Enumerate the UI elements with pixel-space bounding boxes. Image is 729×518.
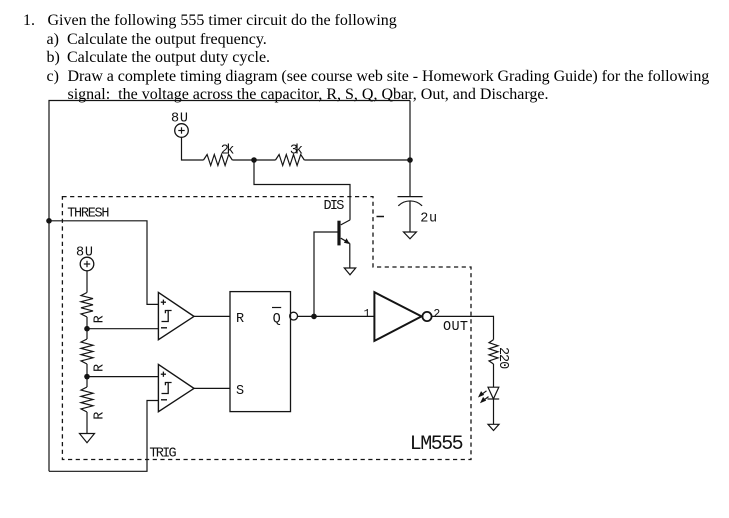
svg-text:Q: Q	[273, 312, 281, 327]
node divider 1	[84, 326, 90, 332]
wire top rail	[49, 101, 410, 472]
ground cap	[404, 232, 417, 239]
latch Qbar bubble	[290, 312, 298, 320]
wire R1-R2	[86, 317, 88, 339]
source V2 circle	[80, 257, 94, 271]
resistor R3k zigzag	[276, 155, 305, 166]
transistor Q1 emitter arrow	[344, 238, 350, 244]
svg-text:R: R	[236, 312, 244, 327]
dashed LM555 boundary	[62, 197, 471, 460]
node THRESH tap	[46, 218, 52, 224]
buffer U4 bubble	[422, 312, 431, 321]
LED D1 light arrows	[479, 391, 488, 402]
wire R3 to ground	[86, 412, 88, 434]
resistor R2k zigzag	[204, 155, 233, 166]
svg-text:R: R	[93, 315, 108, 323]
node junction dots	[46, 157, 413, 379]
transistor Q1 base bar	[337, 221, 340, 246]
comparator U2 plus	[161, 372, 166, 377]
wire cap to ground	[409, 201, 411, 232]
node Q out	[311, 314, 317, 320]
wire 3k to right rail	[304, 159, 410, 161]
comparator U2 triangle	[158, 364, 194, 411]
wire R2-R3	[86, 364, 88, 387]
wire comp2 out to latch S	[194, 387, 230, 389]
resistor Rc zigzag	[81, 387, 93, 412]
comparator U2 hysteresis icon	[162, 383, 172, 394]
svg-text:2k: 2k	[221, 143, 235, 158]
svg-text:THRESH: THRESH	[67, 207, 109, 222]
capacitor C1 curved plate	[398, 201, 422, 206]
wire DIS feed	[254, 160, 350, 220]
svg-text:DIS: DIS	[324, 199, 345, 214]
comparator U2 minus	[161, 399, 167, 401]
LED D1 triangle	[488, 387, 499, 399]
svg-text:R: R	[93, 364, 108, 372]
buffer U4 triangle	[374, 292, 421, 341]
LED D1 cathode bar	[488, 398, 500, 400]
resistor R220 zigzag	[489, 340, 498, 364]
svg-text:1: 1	[364, 308, 371, 321]
source V1 plus	[178, 127, 184, 133]
wire node2 to comp2	[87, 376, 158, 378]
source V1 circle	[175, 124, 189, 138]
svg-text:8U: 8U	[171, 112, 188, 127]
svg-text:R: R	[93, 412, 108, 420]
comparator U1 minus	[161, 327, 167, 329]
capacitor minus sign	[377, 216, 385, 218]
node cap top	[407, 157, 413, 163]
source V2 plus	[84, 261, 90, 267]
ground transistor	[344, 268, 355, 275]
svg-text:220: 220	[495, 347, 510, 369]
wire base to Q node	[314, 232, 338, 316]
wire 2k to 3k	[232, 159, 275, 161]
wire node1 to comp1	[87, 328, 158, 330]
transistor Q1 collector	[341, 220, 350, 225]
node divider 2	[84, 374, 90, 380]
wire THRESH	[49, 221, 158, 305]
svg-text:2u: 2u	[420, 212, 437, 227]
wire right rail down to cap	[409, 101, 411, 197]
transistor Q1 emitter	[341, 238, 350, 243]
svg-text:3k: 3k	[290, 143, 303, 158]
wire TRIG bottom	[49, 401, 158, 472]
ground LED	[488, 424, 499, 430]
wire LED to ground	[493, 399, 495, 424]
wire V1 to 2k	[182, 137, 204, 160]
node DIS tap	[251, 157, 257, 163]
svg-text:S: S	[236, 384, 244, 399]
resistor Ra zigzag	[81, 293, 93, 318]
comparator U1 hysteresis icon	[162, 311, 172, 322]
comparator U1 triangle	[158, 292, 194, 339]
svg-text:8U: 8U	[76, 246, 93, 261]
wire comp1 out to latch R	[194, 315, 230, 317]
svg-text:LM555: LM555	[410, 433, 464, 456]
capacitor C1 top plate	[398, 196, 423, 198]
svg-text:TRIG: TRIG	[149, 447, 176, 462]
transistor Q1 emitter wire	[349, 243, 351, 268]
wire OUT	[432, 316, 494, 339]
svg-text:2: 2	[433, 308, 440, 321]
ground divider	[80, 434, 95, 443]
comparator U1 plus	[161, 300, 166, 305]
wire 220 to LED	[493, 364, 495, 387]
latch U3 box	[230, 292, 291, 412]
wire V2 to R1	[86, 271, 88, 293]
svg-text:OUT: OUT	[443, 320, 468, 335]
wire Qbar to buffer	[298, 315, 375, 317]
resistor Rb zigzag	[81, 339, 93, 364]
